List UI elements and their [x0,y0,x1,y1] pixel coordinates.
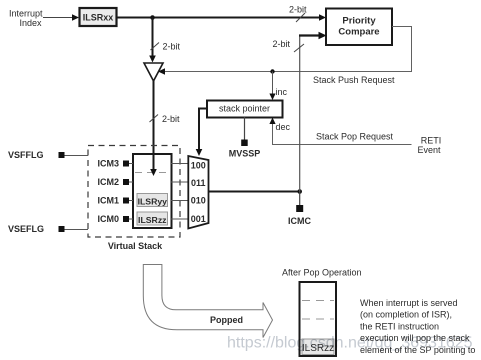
wire ILSRxx to Priority Compare [117,14,326,21]
node VSEFLG [8,224,88,234]
svg-text:ICMC: ICMC [288,216,311,226]
node ICM2 [97,177,129,187]
gate triangle [144,63,163,81]
wire priority compare output / stack push request [158,27,412,75]
svg-text:ICM1: ICM1 [97,196,119,206]
svg-text:ILSRzz: ILSRzz [138,215,167,225]
terminal MVSSP [229,117,261,159]
svg-text:ILSRxx: ILSRxx [83,13,114,23]
wires stack rows to mux [126,164,189,220]
wire triangle to virtual stack [150,81,157,176]
node RETI Event [417,136,441,156]
svg-text:Stack Push Request: Stack Push Request [313,75,395,85]
mux trapezoid [188,156,208,229]
svg-text:Virtual Stack: Virtual Stack [108,241,163,251]
cell ILSRzz (virtual stack) [137,212,168,225]
svg-text:VSFFLG: VSFFLG [8,150,44,160]
wire interrupt index to ILSRxx [43,14,79,21]
svg-text:ILSRyy: ILSRyy [138,196,168,206]
svg-text:Interrupt: Interrupt [9,8,43,18]
svg-text:ICM2: ICM2 [97,177,119,187]
svg-text:RETI: RETI [421,136,442,146]
svg-text:Event: Event [417,145,441,155]
svg-text:MVSSP: MVSSP [229,149,261,159]
svg-text:ICM0: ICM0 [97,214,119,224]
svg-text:001: 001 [191,214,206,224]
svg-text:https://blog.csdn.net/qq_36931: https://blog.csdn.net/qq_36931625 [227,335,473,352]
bus slash 2-bit priority compare second input [272,39,304,52]
svg-text:ICM3: ICM3 [97,159,119,169]
virtual stack dashed box [88,146,180,238]
wire dec / stack pop request [269,118,411,145]
svg-text:After Pop Operation: After Pop Operation [282,268,362,278]
bus slash 2-bit lower vertical [150,114,181,124]
terminal ICMC [288,192,311,227]
wire junction down to gate triangle [149,18,156,63]
svg-text:010: 010 [191,196,206,206]
popped flow arrow [143,265,272,338]
svg-text:dec: dec [276,122,291,132]
svg-text:Stack Pop Request: Stack Pop Request [316,132,394,142]
svg-text:stack pointer: stack pointer [219,104,270,114]
svg-text:the RETI instruction: the RETI instruction [360,321,439,331]
wire mux output up to priority compare [299,32,327,192]
svg-text:100: 100 [191,161,206,171]
svg-text:Popped: Popped [210,315,243,325]
svg-text:Compare: Compare [338,27,379,38]
svg-text:Index: Index [19,18,42,28]
svg-text:(on completion of ISR),: (on completion of ISR), [360,310,452,320]
register ILSRxx [80,8,117,26]
bus slash 2-bit upper vertical [151,42,181,52]
note paragraph [360,298,475,355]
svg-text:2-bit: 2-bit [289,5,307,15]
node ICM0 [97,214,129,224]
cell ILSRyy [137,194,168,207]
node ICM3 [97,159,129,169]
stack box [133,154,172,228]
wire inc from stack push into stack pointer [269,69,287,100]
cell ILSRzz (after pop) [302,339,334,355]
svg-text:inc: inc [276,87,288,97]
svg-text:2-bit: 2-bit [162,114,180,124]
svg-text:011: 011 [191,178,206,188]
junction dot on ILSRxx output [150,15,155,20]
svg-text:When interrupt is served: When interrupt is served [360,298,458,308]
node ICM1 [97,196,129,206]
node VSFFLG [8,150,88,160]
svg-text:VSEFLG: VSEFLG [8,224,44,234]
node Interrupt Index label [9,8,43,28]
svg-text:Priority: Priority [342,16,376,27]
svg-text:2-bit: 2-bit [272,39,290,49]
bus slash 2-bit top wire [289,5,307,23]
block Priority Compare [326,9,392,46]
mux output wire [209,189,303,194]
block stack pointer [207,101,283,118]
wire stack pointer to mux [196,109,207,157]
after pop stack box [300,282,337,356]
svg-text:2-bit: 2-bit [163,42,181,52]
